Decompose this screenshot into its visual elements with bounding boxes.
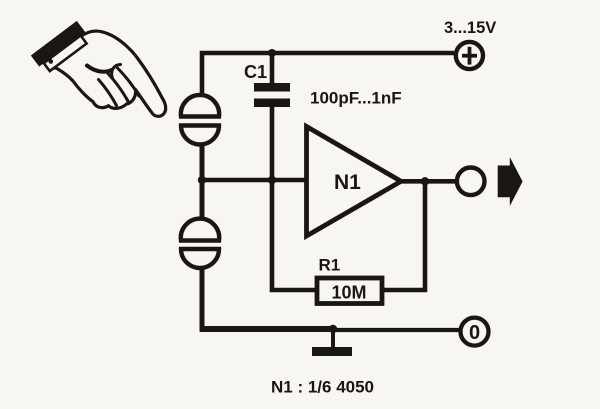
svg-text:N1: N1 [334,171,361,194]
svg-text:10M: 10M [331,283,366,303]
svg-text:N1 : 1/6 4050: N1 : 1/6 4050 [271,378,374,397]
svg-text:3...15V: 3...15V [444,19,496,37]
svg-text:100pF...1nF: 100pF...1nF [310,89,402,108]
svg-text:0: 0 [469,322,480,344]
svg-text:C1: C1 [244,62,267,82]
svg-text:R1: R1 [319,256,341,275]
